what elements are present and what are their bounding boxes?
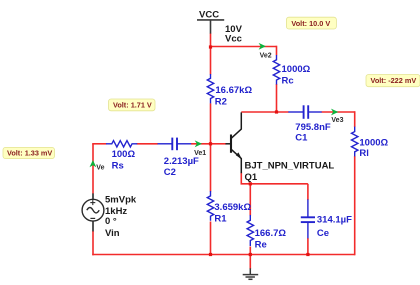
wire: Re bottom to rail (250.3,247)-(250.3,254.5)	[249, 247, 251, 255]
svg-text:Volt: -222 mV: Volt: -222 mV	[371, 76, 417, 85]
wire: Re top (250.3,184)-(250.3,215)	[249, 184, 251, 216]
wire: base node to transistor base (210.5,144)-(226,144)	[211, 143, 227, 145]
svg-text:1000Ω: 1000Ω	[359, 138, 388, 149]
capacitor C2 (horizontal, 2.213uF)	[158, 138, 192, 151]
wire: collector node left (241.3,112)-(288.5,112)	[241, 111, 288, 113]
resistor Re (vertical, 166.7 ohm)	[247, 215, 253, 246]
wire: Rl corner down (354.7,112)-(354.7,127)	[354, 111, 356, 127]
wire: Rs to C2 (137,144)-(157.5,144)	[137, 143, 158, 145]
svg-text:100Ω: 100Ω	[112, 149, 136, 160]
svg-text:Volt: 1.33 mV: Volt: 1.33 mV	[7, 149, 52, 158]
svg-text:166.7Ω: 166.7Ω	[255, 228, 287, 239]
svg-text:314.1µF: 314.1µF	[317, 215, 352, 226]
resistor Rc (vertical, 1000 ohm)	[273, 55, 279, 85]
capacitor C1 (horizontal, 795.8nF)	[288, 105, 321, 119]
resistor Rs (horizontal, 100 ohm)	[106, 141, 137, 147]
probe arrow Ve3 (right)	[331, 109, 338, 116]
resistor R1 (vertical, 3.659k)	[207, 191, 213, 221]
junction VCC node	[209, 45, 212, 48]
svg-text:Ve2: Ve2	[260, 53, 272, 60]
svg-text:C2: C2	[164, 167, 176, 178]
svg-text:BJT_NPN_VIRTUAL: BJT_NPN_VIRTUAL	[245, 161, 335, 172]
svg-text:Re: Re	[255, 239, 267, 250]
resistor Rl (vertical, 1000 ohm)	[352, 127, 358, 157]
power symbol VCC	[197, 20, 224, 34]
junction emitter node	[249, 182, 252, 185]
svg-text:Ve3: Ve3	[331, 117, 343, 124]
wire: emitter node horizontal (241.3,184)-(307.9,184)	[241, 183, 308, 185]
transistor Q1 BJT_NPN_VIRTUAL	[226, 112, 242, 173]
wire: top-left node wire (93,144)-(106,144)	[92, 143, 106, 145]
svg-text:5mVpk: 5mVpk	[105, 195, 137, 206]
probe arrow Ve2 (right)	[259, 43, 266, 50]
svg-text:R2: R2	[215, 96, 227, 107]
wire: ground stub red (250.3,254.5)-(250.3,269)	[249, 255, 251, 270]
probe value box Volt: 10.0 V	[286, 17, 336, 29]
source minus sign	[90, 217, 95, 219]
svg-text:VCC: VCC	[199, 10, 219, 21]
svg-text:Q1: Q1	[245, 172, 258, 183]
wire: VCC node to Rc corner (210.5,47)-(276.5,47)	[211, 46, 277, 48]
wire: Rl bottom to bottom rail (354.7,156)-(354.7,254.5)	[354, 156, 356, 255]
capacitor Ce (vertical, 314.1uF)	[301, 199, 315, 238]
probe value box Volt: 1.33 mV	[3, 147, 55, 158]
source plus sign	[90, 200, 95, 205]
wire: emitter down (241.3,173)-(241.3,184)	[240, 173, 242, 185]
svg-text:Rl: Rl	[359, 148, 369, 159]
wire: R2 bottom to base node (210.5,104)-(210.5,144)	[210, 103, 212, 144]
wire: Rc bottom to collector node (276.5,84)-(276.5,112)	[276, 84, 278, 112]
wire: C1 right to Rl corner (321.5,112)-(354.7,112)	[322, 111, 355, 113]
svg-text:1000Ω: 1000Ω	[282, 64, 311, 75]
svg-text:Vin: Vin	[105, 228, 120, 239]
wire: R1 bottom to bottom rail (210.5,222)-(210.5,254.5)	[210, 222, 212, 255]
svg-text:795.8nF: 795.8nF	[295, 122, 331, 133]
svg-text:Rs: Rs	[112, 161, 124, 172]
svg-text:16.67kΩ: 16.67kΩ	[215, 85, 252, 96]
probe value box Volt: -222 mV	[366, 75, 420, 87]
svg-text:Rc: Rc	[282, 76, 294, 87]
wire: Ce top (307.9,184)-(307.9,200)	[307, 184, 309, 200]
svg-text:R1: R1	[214, 214, 227, 225]
wire: C2 to base node (191,144)-(210.5,144)	[191, 143, 211, 145]
wire: VCC stub red (210.5,33)-(210.5,47)	[210, 33, 212, 47]
source Vin (AC sine source)	[82, 193, 104, 231]
junction R1 bottom node	[209, 253, 212, 256]
probe arrow Ve (up)	[90, 160, 97, 167]
wire: left rail top (93,144)-(93,193)	[92, 144, 94, 194]
junction Ce bottom node	[306, 253, 309, 256]
ground symbol	[243, 268, 259, 279]
svg-text:Ve: Ve	[96, 165, 104, 172]
svg-text:2.213µF: 2.213µF	[164, 156, 199, 167]
svg-text:Ce: Ce	[317, 228, 329, 239]
svg-text:Vcc: Vcc	[225, 34, 242, 45]
svg-text:Volt: 10.0 V: Volt: 10.0 V	[291, 19, 330, 28]
svg-text:Volt: 1.71 V: Volt: 1.71 V	[113, 101, 152, 110]
transistor emitter arrowhead	[236, 152, 242, 159]
probe arrow Ve1 (right)	[195, 140, 202, 147]
svg-text:C1: C1	[295, 133, 308, 144]
wire: base node to R1 top (210.5,144)-(210.5,191)	[210, 144, 212, 192]
svg-text:0 °: 0 °	[105, 216, 117, 227]
junction collector node	[275, 110, 278, 113]
junction ground node	[249, 253, 252, 256]
wire: Rc corner down (276.5,47)-(276.5,55)	[276, 46, 278, 56]
svg-text:Ve1: Ve1	[194, 150, 206, 157]
wire: R2 chain upper (210.5,47)-(210.5,74)	[210, 47, 212, 75]
wire: bottom rail (93,254.5)-(354.7,254.5)	[92, 254, 355, 256]
wire: Ce bottom to rail (307.9,238)-(307.9,254.5)	[307, 238, 309, 255]
svg-text:3.659kΩ: 3.659kΩ	[214, 202, 251, 213]
junction base node	[209, 142, 212, 145]
wire: left rail bottom (93,231)-(93,254.5)	[92, 231, 94, 255]
resistor R2 (vertical, 16.67k)	[207, 74, 213, 103]
probe value box Volt: 1.71 V	[109, 99, 156, 111]
